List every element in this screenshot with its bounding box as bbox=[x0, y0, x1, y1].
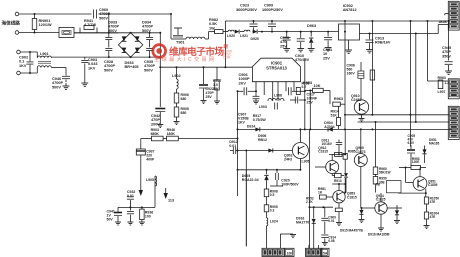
svg-text:1B2B: 1B2B bbox=[439, 20, 448, 24]
svg-text:113: 113 bbox=[168, 199, 174, 203]
svg-text:MA2770: MA2770 bbox=[296, 220, 309, 224]
svg-text:0.01: 0.01 bbox=[229, 144, 236, 148]
svg-text:2W: 2W bbox=[213, 87, 219, 91]
svg-text:L907: L907 bbox=[438, 90, 446, 94]
svg-text:A7034: A7034 bbox=[324, 125, 334, 129]
svg-text:2.7K: 2.7K bbox=[306, 200, 313, 204]
svg-text:D963: D963 bbox=[307, 24, 316, 28]
svg-text:680: 680 bbox=[181, 97, 187, 101]
svg-text:500V: 500V bbox=[142, 29, 151, 33]
svg-text:1KV: 1KV bbox=[19, 64, 27, 68]
svg-text:0.3: 0.3 bbox=[270, 209, 275, 213]
svg-text:C2482: C2482 bbox=[351, 98, 361, 102]
svg-text:500V: 500V bbox=[108, 29, 117, 33]
svg-text:350V: 350V bbox=[442, 54, 451, 58]
svg-text:180K: 180K bbox=[167, 132, 176, 136]
svg-text:680K: 680K bbox=[151, 132, 160, 136]
svg-text:MA165: MA165 bbox=[429, 142, 440, 146]
svg-text:D916 MA165M: D916 MA165M bbox=[368, 233, 390, 237]
svg-text:R913: R913 bbox=[334, 179, 342, 183]
svg-text:7B: 7B bbox=[376, 182, 381, 186]
svg-text:0.01: 0.01 bbox=[328, 219, 334, 223]
svg-text:STR5A013: STR5A013 bbox=[266, 66, 287, 71]
svg-text:1K: 1K bbox=[318, 191, 323, 195]
svg-text:500V: 500V bbox=[99, 16, 108, 20]
svg-text:D914: D914 bbox=[247, 125, 255, 129]
svg-text:RGA22-04: RGA22-04 bbox=[242, 178, 259, 182]
svg-text:50V: 50V bbox=[107, 217, 114, 221]
svg-text:0.2: 0.2 bbox=[302, 85, 307, 89]
svg-text:R953: R953 bbox=[303, 81, 312, 85]
svg-text:T901: T901 bbox=[176, 41, 185, 45]
svg-text:C1815: C1815 bbox=[347, 195, 357, 199]
svg-text:0.01: 0.01 bbox=[127, 194, 134, 198]
svg-text:D915 MA4577B: D915 MA4577B bbox=[340, 229, 364, 233]
svg-text:100P/500V: 100P/500V bbox=[281, 182, 299, 186]
svg-text:200V: 200V bbox=[151, 122, 160, 126]
svg-text:25V: 25V bbox=[206, 95, 213, 99]
svg-text:海信线路: 海信线路 bbox=[2, 20, 21, 27]
svg-text:L903: L903 bbox=[259, 105, 267, 109]
svg-text:500V: 500V bbox=[144, 68, 153, 72]
svg-text:400P: 400P bbox=[146, 157, 155, 161]
svg-text:25V: 25V bbox=[323, 56, 330, 60]
svg-text:25V: 25V bbox=[280, 44, 287, 48]
svg-text:51K: 51K bbox=[331, 113, 338, 117]
svg-text:0.75/2W: 0.75/2W bbox=[253, 118, 267, 122]
svg-text:L921: L921 bbox=[240, 34, 248, 38]
svg-text:5A: 5A bbox=[323, 251, 328, 255]
svg-text:10K: 10K bbox=[314, 84, 321, 88]
svg-text:AN7812: AN7812 bbox=[343, 8, 357, 12]
svg-text:C1815: C1815 bbox=[318, 150, 328, 154]
svg-text:RB12: RB12 bbox=[258, 138, 267, 142]
svg-text:25V: 25V bbox=[307, 100, 314, 104]
svg-text:R963: R963 bbox=[334, 97, 343, 101]
svg-text:1000P/250V: 1000P/250V bbox=[262, 8, 283, 12]
svg-text:C1805: C1805 bbox=[428, 183, 438, 187]
svg-text:L024: L024 bbox=[270, 220, 278, 224]
svg-text:470/25V: 470/25V bbox=[295, 58, 310, 62]
svg-text:1KV: 1KV bbox=[238, 120, 245, 124]
svg-text:56K/1W: 56K/1W bbox=[379, 171, 391, 175]
svg-text:R985: R985 bbox=[348, 150, 356, 154]
svg-text:0.5: 0.5 bbox=[270, 193, 275, 197]
svg-text:6.3V: 6.3V bbox=[408, 141, 415, 145]
svg-text:1KV: 1KV bbox=[88, 66, 96, 70]
svg-text:120E: 120E bbox=[412, 160, 419, 164]
svg-text:120/1W: 120/1W bbox=[39, 23, 53, 27]
svg-text:47E: 47E bbox=[430, 215, 436, 219]
svg-text:L901: L901 bbox=[40, 52, 49, 56]
svg-text:L908: L908 bbox=[274, 94, 282, 98]
svg-text:160V: 160V bbox=[347, 71, 356, 75]
svg-text:D920: D920 bbox=[251, 37, 259, 41]
svg-text:47E: 47E bbox=[430, 200, 436, 204]
svg-text:COM: COM bbox=[223, 56, 231, 60]
svg-text:10N: 10N bbox=[287, 251, 294, 255]
svg-text:100: 100 bbox=[145, 214, 151, 218]
svg-text:L905: L905 bbox=[302, 160, 310, 164]
svg-text:3600P/250V: 3600P/250V bbox=[236, 8, 257, 12]
svg-text:L905: L905 bbox=[146, 178, 154, 182]
svg-text:680: 680 bbox=[181, 111, 187, 115]
svg-text:24F3: 24F3 bbox=[284, 157, 292, 161]
svg-text:4.7/7W: 4.7/7W bbox=[84, 23, 96, 27]
svg-text:1W: 1W bbox=[209, 26, 215, 30]
svg-text:C923: C923 bbox=[240, 4, 249, 8]
svg-text:L920: L920 bbox=[227, 34, 235, 38]
svg-text:BR+405: BR+405 bbox=[125, 65, 139, 69]
svg-text:500V: 500V bbox=[104, 68, 113, 72]
svg-text:全球最大IC交易网: 全球最大IC交易网 bbox=[154, 55, 216, 63]
svg-text:0.08: 0.08 bbox=[328, 239, 334, 243]
svg-text:2KV: 2KV bbox=[239, 81, 247, 85]
svg-text:R963: R963 bbox=[438, 76, 446, 80]
svg-text:C909: C909 bbox=[264, 4, 273, 8]
svg-text:500V: 500V bbox=[52, 85, 61, 89]
svg-text:R0B/16V: R0B/16V bbox=[375, 41, 391, 45]
